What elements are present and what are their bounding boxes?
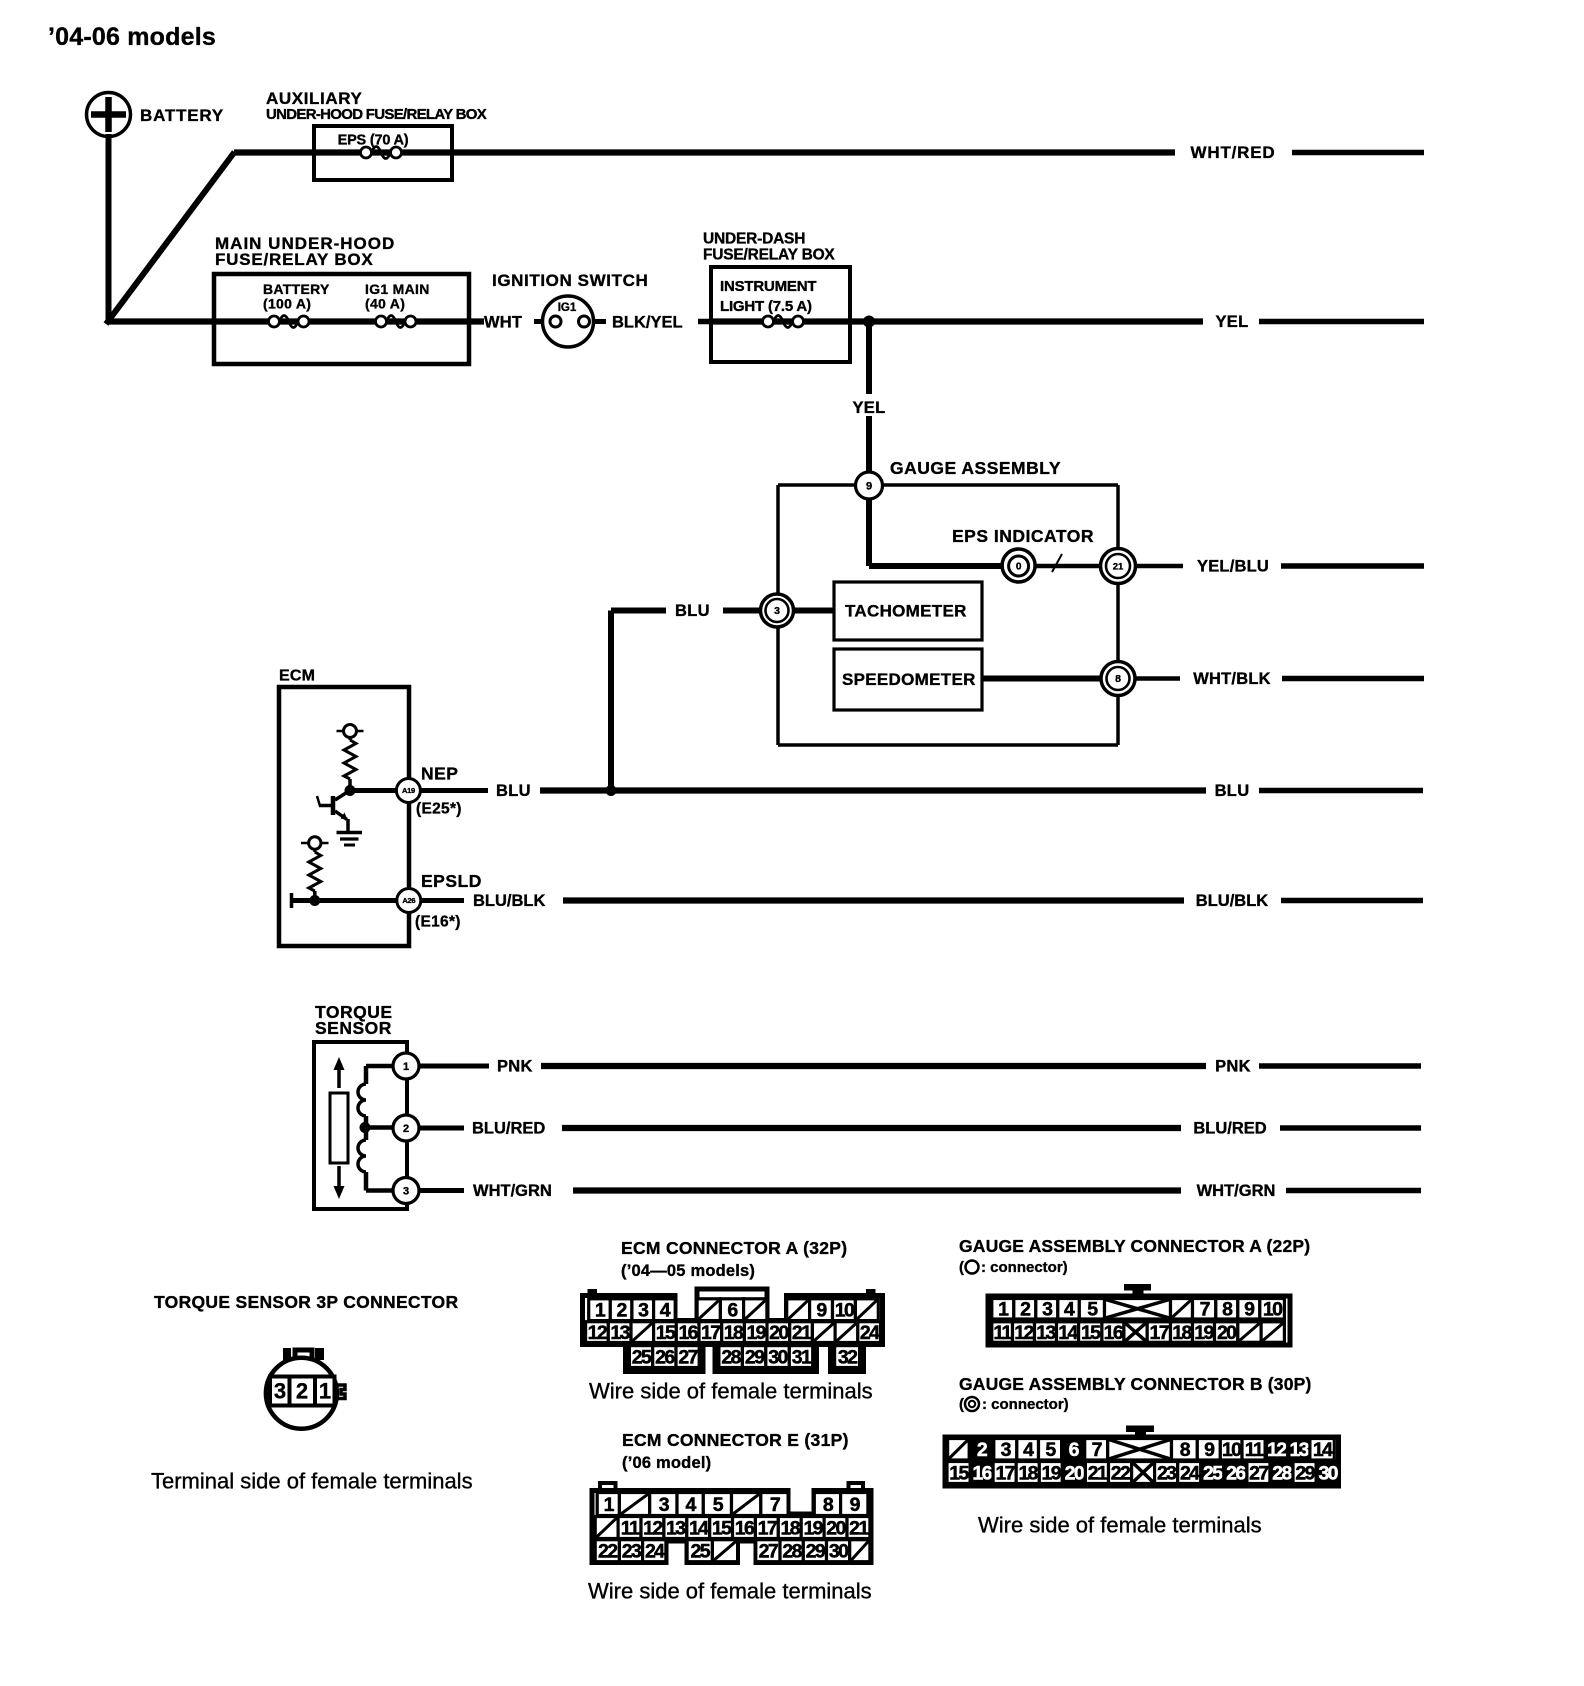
label YEL vertical (853, 399, 886, 417)
legend connector A (959, 1259, 1068, 1276)
svg-text:BLK/YEL: BLK/YEL (612, 313, 683, 331)
label NEP (421, 764, 458, 784)
svg-text:Wire side of female terminals: Wire side of female terminals (978, 1513, 1262, 1538)
svg-text:17: 17 (1150, 1322, 1169, 1344)
svg-text:A19: A19 (402, 786, 415, 795)
label GAUGE ASSEMBLY CONNECTOR A (22P) (959, 1236, 1310, 1256)
svg-text:BLU/RED: BLU/RED (1193, 1119, 1266, 1137)
svg-text:17: 17 (758, 1517, 777, 1539)
svg-text:WHT/GRN: WHT/GRN (473, 1182, 552, 1200)
wire BLU to connector 3 (611, 608, 762, 614)
svg-text:12: 12 (1267, 1439, 1287, 1461)
ECM E row2 cells 10-21 (595, 1517, 870, 1540)
svg-text:17: 17 (995, 1462, 1014, 1484)
svg-text:25: 25 (1203, 1462, 1223, 1484)
label BLU/RED right (1193, 1119, 1266, 1137)
fuse IG1 MAIN 40A (376, 316, 417, 328)
svg-text:(E25*): (E25*) (416, 800, 462, 817)
wire BLU right segment (1259, 788, 1423, 794)
pin A26 EPSLD (397, 889, 421, 913)
svg-text:28: 28 (721, 1346, 741, 1368)
label TORQUE SENSOR 3P CONNECTOR (154, 1292, 458, 1312)
label IG1 MAIN (40 A) (365, 281, 430, 312)
ECM box (279, 687, 409, 946)
3P connector pin cells 3 2 1 (270, 1377, 335, 1406)
fuse INSTRUMENT LIGHT 7.5A (763, 316, 804, 328)
svg-text:19: 19 (746, 1322, 766, 1344)
svg-text:WHT/BLK: WHT/BLK (1193, 670, 1270, 688)
svg-text:(E16*): (E16*) (415, 913, 461, 930)
ECM A row1 cells 1-4 (589, 1299, 675, 1322)
wire WHT/GRN long (573, 1187, 1181, 1193)
wire R1 node to pin A19 (345, 785, 398, 796)
caption terminal side (151, 1469, 473, 1494)
svg-text:26: 26 (655, 1346, 675, 1368)
label ('04-05 models) (621, 1262, 755, 1280)
svg-text:15: 15 (1081, 1322, 1101, 1344)
label TORQUE SENSOR (315, 1002, 393, 1038)
wire 3 to tachometer (794, 608, 835, 614)
EPS indicator lamp (1002, 549, 1035, 582)
junction dot torque (360, 1122, 394, 1133)
svg-text:12: 12 (1014, 1322, 1034, 1344)
svg-text:YEL: YEL (1216, 313, 1249, 331)
svg-text:ECM CONNECTOR E (31P): ECM CONNECTOR E (31P) (622, 1430, 849, 1450)
label BLU/BLK right (1196, 892, 1268, 910)
svg-text:Wire side of female terminals: Wire side of female terminals (589, 1379, 873, 1404)
svg-text:23: 23 (622, 1541, 642, 1563)
svg-text:FUSE/RELAY BOX: FUSE/RELAY BOX (703, 246, 835, 263)
svg-text:19: 19 (1042, 1462, 1062, 1484)
svg-text:12: 12 (643, 1517, 663, 1539)
svg-text:ECM: ECM (279, 668, 315, 685)
wire stub BLK/YEL to box (592, 319, 712, 324)
connector pin 3 (761, 594, 794, 627)
label BATTERY (100 A) (263, 281, 330, 312)
label BLU/BLK mid (473, 892, 545, 910)
svg-text:(100 A): (100 A) (263, 295, 311, 311)
svg-text:FUSE/RELAY BOX: FUSE/RELAY BOX (215, 250, 374, 269)
svg-text:INSTRUMENT: INSTRUMENT (720, 278, 816, 295)
svg-text:BLU: BLU (675, 602, 710, 620)
svg-text:21: 21 (849, 1517, 869, 1539)
svg-text:25: 25 (632, 1346, 652, 1368)
svg-text:SENSOR: SENSOR (315, 1018, 392, 1038)
pin 1 torque (393, 1053, 419, 1079)
ignition switch IG1 (492, 271, 648, 347)
svg-text:0: 0 (1016, 562, 1022, 573)
ECM E row3 cells 27-31 (756, 1540, 870, 1563)
svg-text:12: 12 (588, 1322, 608, 1344)
svg-text:19: 19 (803, 1517, 823, 1539)
tachometer box (834, 582, 982, 640)
wire through under-dash box (711, 318, 850, 324)
svg-text:18: 18 (1172, 1322, 1192, 1344)
wire WHT/BLK right segment (1282, 676, 1424, 682)
svg-text:EPSLD: EPSLD (421, 871, 482, 891)
wire BLU/BLK right segment (1281, 898, 1423, 904)
svg-text:25: 25 (691, 1541, 711, 1563)
wire indicator to 21 (1035, 564, 1101, 569)
svg-text:PNK: PNK (1215, 1057, 1251, 1075)
gauge A row1 cells (992, 1299, 1285, 1321)
svg-text:14: 14 (1313, 1439, 1333, 1461)
svg-text:28: 28 (1272, 1462, 1292, 1484)
svg-text:BLU/BLK: BLU/BLK (1196, 892, 1268, 910)
wire YEL vertical upper (866, 322, 872, 395)
svg-text:20: 20 (826, 1517, 846, 1539)
svg-text:32: 32 (838, 1346, 858, 1368)
svg-text:(: ( (959, 1259, 964, 1276)
svg-text:BATTERY: BATTERY (140, 106, 224, 125)
ECM E row3 cells 22-24 (595, 1540, 666, 1563)
svg-text:EPS INDICATOR: EPS INDICATOR (952, 526, 1094, 546)
label PNK mid (497, 1057, 533, 1075)
connector pin 9 (856, 472, 883, 499)
svg-text:NEP: NEP (421, 764, 458, 784)
svg-text:24: 24 (645, 1541, 665, 1563)
svg-text:26: 26 (1226, 1462, 1246, 1484)
svg-text:BLU: BLU (1215, 782, 1250, 800)
connector pin 8 (1101, 662, 1135, 696)
svg-text:28: 28 (782, 1541, 802, 1563)
svg-text:A26: A26 (402, 896, 415, 905)
ECM connector E outline (592, 1483, 871, 1563)
gauge connector B body (945, 1437, 1339, 1486)
svg-text:29: 29 (1295, 1462, 1315, 1484)
svg-text:TACHOMETER: TACHOMETER (845, 602, 967, 621)
svg-text:21: 21 (1088, 1462, 1108, 1484)
svg-text:10: 10 (835, 1300, 855, 1322)
wire speedometer to 8 (982, 676, 1101, 682)
pin 3 torque (393, 1178, 419, 1204)
wire battery vertical (106, 134, 112, 324)
svg-text:16: 16 (735, 1517, 755, 1539)
svg-text:11: 11 (621, 1517, 640, 1539)
wire BLU/BLK stub from A26 (421, 898, 464, 903)
label EPS (70 A) (338, 133, 409, 149)
svg-text:3: 3 (403, 1185, 409, 1197)
svg-text:7: 7 (1092, 1439, 1102, 1461)
svg-text:20: 20 (769, 1322, 789, 1344)
svg-text:23: 23 (1157, 1462, 1177, 1484)
svg-text:(40 A): (40 A) (365, 295, 405, 311)
ground (337, 833, 363, 846)
wire YEL/BLU stub (1136, 564, 1184, 569)
wire BLU long (540, 787, 1206, 793)
wire 9 down-right to indicator (869, 499, 1002, 566)
svg-text:1: 1 (319, 1379, 331, 1404)
svg-text:2: 2 (403, 1123, 409, 1135)
label ('06 model) (622, 1454, 711, 1472)
ECM E row1 cells 8-9 (814, 1493, 868, 1516)
svg-text:15: 15 (949, 1462, 969, 1484)
under-dash fuse/relay box (703, 230, 850, 362)
gauge connector A body (988, 1296, 1290, 1345)
stray tick mark (1052, 554, 1062, 572)
wire BLU/BLK long (563, 897, 1184, 903)
svg-text:BLU/RED: BLU/RED (472, 1119, 545, 1137)
label BLU mid (496, 782, 531, 800)
svg-text:18: 18 (1018, 1462, 1038, 1484)
label BLU left (675, 602, 710, 620)
svg-text:16: 16 (1104, 1322, 1124, 1344)
gauge B row1 cells (948, 1439, 1335, 1462)
svg-text:11: 11 (1245, 1439, 1264, 1461)
wire main row from battery (109, 318, 485, 324)
caption wire side A (589, 1379, 873, 1404)
wire PNK long (541, 1063, 1206, 1069)
wire WHT/BLK stub (1136, 676, 1181, 681)
label WHT/GRN mid (473, 1182, 552, 1200)
svg-text:27: 27 (678, 1346, 697, 1368)
svg-text:30: 30 (1318, 1462, 1338, 1484)
slot rectangle (330, 1093, 348, 1163)
wire WHT/GRN stub (419, 1188, 464, 1193)
svg-text:GAUGE ASSEMBLY CONNECTOR B (30: GAUGE ASSEMBLY CONNECTOR B (30P) (959, 1374, 1312, 1394)
main under-hood fuse/relay box (214, 234, 469, 364)
svg-text:BLU/BLK: BLU/BLK (473, 892, 545, 910)
svg-text:Wire side of female terminals: Wire side of female terminals (588, 1579, 872, 1604)
svg-text:8: 8 (1115, 673, 1121, 685)
svg-text:22: 22 (1111, 1462, 1131, 1484)
wire BLU vertical from junction (608, 611, 614, 791)
svg-text:24: 24 (1180, 1462, 1200, 1484)
ECM A row3 cells 28-31 (719, 1346, 813, 1369)
torque sensor 3P connector body (266, 1348, 345, 1429)
gauge A row2 cells (992, 1322, 1285, 1344)
label ECM CONNECTOR A (32P) (621, 1238, 847, 1258)
svg-text:PNK: PNK (497, 1057, 533, 1075)
wire BLU/RED right segment (1280, 1125, 1421, 1131)
wire YEL/BLU right segment (1281, 563, 1424, 569)
caption wire side B (978, 1513, 1262, 1538)
label (E16*) (415, 913, 461, 930)
svg-text:24: 24 (860, 1322, 880, 1344)
svg-text:1: 1 (403, 1061, 409, 1073)
svg-text:19: 19 (1194, 1322, 1214, 1344)
ECM A row1 cells 5-7 (697, 1299, 767, 1322)
svg-text:7: 7 (770, 1494, 780, 1516)
svg-text:3: 3 (274, 1379, 286, 1404)
svg-text:16: 16 (972, 1462, 992, 1484)
label ECM (279, 668, 315, 685)
ECM E row3 cells 25-26 (687, 1540, 738, 1563)
svg-text:WHT: WHT (484, 313, 522, 331)
speedometer box (834, 649, 982, 710)
svg-text:Terminal side of female termin: Terminal side of female terminals (151, 1469, 473, 1494)
gauge assembly box (778, 485, 1118, 745)
svg-text:WHT/GRN: WHT/GRN (1197, 1182, 1276, 1200)
svg-text:20: 20 (1065, 1462, 1085, 1484)
svg-text:GAUGE ASSEMBLY CONNECTOR A (22: GAUGE ASSEMBLY CONNECTOR A (22P) (959, 1236, 1310, 1256)
label ECM CONNECTOR E (31P) (622, 1430, 849, 1450)
svg-text:31: 31 (792, 1346, 812, 1368)
coil L1 (358, 1066, 393, 1140)
svg-text:13: 13 (1290, 1439, 1310, 1461)
wire WHT/RED right segment (1292, 150, 1424, 156)
label BLU right (1215, 782, 1250, 800)
ECM A row1 cells 8-11 (787, 1299, 879, 1322)
svg-text:YEL: YEL (853, 399, 886, 417)
gauge connector A tab (1124, 1284, 1151, 1297)
wire YEL vertical lower (866, 416, 872, 478)
torque sensor box (314, 1042, 407, 1209)
fuse EPS 70A (361, 147, 402, 159)
svg-text:AUXILIARY: AUXILIARY (266, 89, 362, 108)
svg-text:LIGHT (7.5 A): LIGHT (7.5 A) (720, 298, 812, 315)
svg-text:9: 9 (866, 480, 872, 492)
svg-text:29: 29 (745, 1346, 765, 1368)
ECM E row1 cells 1-7 (597, 1493, 788, 1516)
svg-text:27: 27 (759, 1541, 778, 1563)
wire BLU stub from A19 (421, 788, 489, 793)
label PNK right (1215, 1057, 1251, 1075)
svg-text:2: 2 (296, 1379, 308, 1404)
svg-text:14: 14 (1058, 1322, 1078, 1344)
wire battery diagonal (106, 152, 235, 324)
ECM A row3 cells 25-27 (629, 1346, 699, 1369)
resistor R1 pull-up (337, 725, 364, 791)
gauge connector B tab (1126, 1426, 1154, 1439)
label GAUGE ASSEMBLY (890, 458, 1061, 478)
wire YEL right segment (1259, 319, 1424, 325)
label WHT (484, 313, 522, 331)
svg-text:30: 30 (768, 1346, 788, 1368)
svg-text:WHT/RED: WHT/RED (1191, 143, 1276, 162)
label BLK/YEL (612, 313, 683, 331)
svg-text:27: 27 (1249, 1462, 1268, 1484)
svg-text:(’06 model): (’06 model) (622, 1454, 711, 1472)
junction dot BLU (606, 785, 617, 796)
svg-text:20: 20 (1217, 1322, 1237, 1344)
label YEL right (1216, 313, 1249, 331)
wire WHT/RED left segment (234, 149, 1175, 155)
fuse BATTERY 100A (269, 316, 310, 328)
label WHT/BLK (1193, 670, 1270, 688)
battery (87, 93, 224, 137)
label GAUGE ASSEMBLY CONNECTOR B (30P) (959, 1374, 1312, 1394)
svg-text:17: 17 (701, 1322, 720, 1344)
svg-text:BLU: BLU (496, 782, 531, 800)
wire R2 node row (292, 893, 398, 908)
label EPSLD (421, 871, 482, 891)
svg-text:22: 22 (598, 1541, 618, 1563)
svg-text:UNDER-HOOD FUSE/RELAY BOX: UNDER-HOOD FUSE/RELAY BOX (266, 106, 487, 123)
caption wire side E (588, 1579, 872, 1604)
svg-text:14: 14 (689, 1517, 709, 1539)
svg-text:YEL/BLU: YEL/BLU (1197, 557, 1269, 575)
svg-text:TORQUE SENSOR 3P CONNECTOR: TORQUE SENSOR 3P CONNECTOR (154, 1292, 458, 1312)
wire WHT/GRN right segment (1286, 1188, 1421, 1194)
label WHT/RED (1191, 143, 1276, 162)
svg-text:SPEEDOMETER: SPEEDOMETER (842, 670, 976, 689)
svg-text:7: 7 (1200, 1299, 1210, 1321)
connector pin 21 (1101, 549, 1136, 584)
wire stub WHT to switch (534, 319, 550, 324)
transistor Q1 (317, 791, 349, 831)
gauge B row2 cells (947, 1462, 1339, 1485)
label WHT/GRN right (1197, 1182, 1276, 1200)
svg-text:15: 15 (712, 1517, 732, 1539)
ECM connector A outline (583, 1289, 883, 1372)
arrow up (334, 1057, 345, 1088)
auxiliary under-hood fuse/relay box (266, 89, 487, 180)
svg-text:30: 30 (829, 1541, 849, 1563)
pin 2 torque (393, 1115, 419, 1141)
svg-text:(: ( (959, 1396, 964, 1413)
svg-text:(’04—05 models): (’04—05 models) (621, 1262, 755, 1280)
svg-text:21: 21 (1113, 561, 1124, 572)
junction dot YEL (863, 316, 875, 328)
resistor R2 pull-up (301, 837, 329, 901)
svg-text:18: 18 (724, 1322, 744, 1344)
pin A19 NEP (396, 779, 420, 803)
wire BLU/RED stub (419, 1126, 464, 1131)
title '04-06 models (48, 23, 216, 51)
svg-text:IGNITION SWITCH: IGNITION SWITCH (492, 271, 648, 290)
svg-text:13: 13 (610, 1322, 630, 1344)
svg-text:13: 13 (666, 1517, 686, 1539)
svg-text:ECM CONNECTOR A (32P): ECM CONNECTOR A (32P) (621, 1238, 847, 1258)
label EPS INDICATOR (952, 526, 1094, 546)
legend connector B (959, 1396, 1069, 1413)
arrow down (334, 1166, 345, 1199)
svg-text:10: 10 (1263, 1299, 1283, 1321)
svg-text:: connector): : connector) (982, 1396, 1069, 1413)
label INSTRUMENT LIGHT (7.5 A) (720, 278, 816, 315)
svg-text:11: 11 (993, 1322, 1012, 1344)
wire BLU/RED long (562, 1125, 1181, 1131)
svg-text:29: 29 (806, 1541, 826, 1563)
svg-text:21: 21 (792, 1322, 812, 1344)
svg-text:IG1: IG1 (558, 302, 577, 314)
wire YEL left segment (850, 318, 1203, 324)
ECM A row3 cell 32 (835, 1346, 860, 1369)
svg-text:13: 13 (1036, 1322, 1056, 1344)
svg-text:UNDER-DASH: UNDER-DASH (703, 230, 805, 247)
label BLU/RED mid (472, 1119, 545, 1137)
svg-text:15: 15 (656, 1322, 676, 1344)
ECM A row2 cells 12-24 (586, 1322, 881, 1344)
svg-text:16: 16 (678, 1322, 698, 1344)
svg-text:: connector): : connector) (981, 1259, 1068, 1276)
svg-text:10: 10 (1222, 1439, 1242, 1461)
svg-text:GAUGE ASSEMBLY: GAUGE ASSEMBLY (890, 458, 1061, 478)
svg-text:3: 3 (774, 605, 780, 617)
coil L2 (358, 1140, 393, 1191)
wire PNK right segment (1259, 1063, 1421, 1069)
wire PNK stub (419, 1064, 489, 1069)
label YEL/BLU (1197, 557, 1269, 575)
svg-text:’04-06 models: ’04-06 models (48, 23, 216, 51)
label (E25*) (416, 800, 462, 817)
svg-text:18: 18 (781, 1517, 801, 1539)
